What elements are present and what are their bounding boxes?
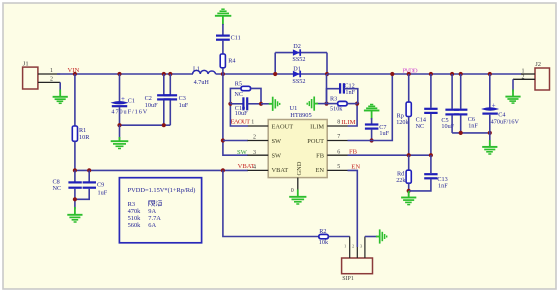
svg-text:4.7uH: 4.7uH [194, 79, 210, 86]
svg-text:GND: GND [296, 161, 303, 175]
wire FB to Rd [408, 155, 410, 170]
svg-text:6: 6 [337, 150, 340, 156]
wire bottom rail to ground [119, 125, 121, 139]
ground (SIP1, sideways right) [376, 229, 387, 243]
svg-text:D2: D2 [293, 43, 301, 50]
junction C4 bottom [488, 131, 492, 135]
U1 pin 4 VBAT [248, 165, 269, 171]
wire C5 bottom [451, 115, 453, 133]
wire Rp to FB row [408, 117, 410, 156]
svg-text:1: 1 [522, 69, 525, 75]
wire ground to C7 [371, 118, 373, 124]
svg-text:U1: U1 [290, 105, 298, 112]
wire POUT to PVDD rail [348, 74, 393, 141]
capacitor C5 [441, 110, 459, 131]
junction R3 left node [324, 102, 328, 106]
junction EAOUT node [228, 102, 232, 106]
wire EN to SIP1 pin2 [348, 170, 358, 247]
wire VIN rail [57, 73, 193, 75]
U1 pin 6 FB [327, 150, 347, 156]
junction C7/POUT [370, 138, 374, 142]
SIP1 pin 2 [352, 244, 357, 259]
ground (Rd/C13) [401, 191, 416, 205]
junction POUT at rail [390, 72, 394, 76]
svg-text:1nF: 1nF [468, 123, 478, 130]
svg-text:510k: 510k [330, 105, 343, 112]
capacitor C12 [340, 83, 355, 96]
wire R3 to right node [347, 103, 357, 105]
wire switch node through D1 to PVDD node [275, 73, 327, 75]
wire C13 top [430, 155, 432, 173]
wire R4 to switch node [222, 68, 224, 74]
resistor R3 [330, 96, 347, 113]
svg-text:2: 2 [253, 134, 256, 140]
svg-text:R3: R3 [128, 201, 135, 208]
svg-text:NC: NC [53, 185, 62, 192]
junction Rp at rail [407, 72, 411, 76]
wire ground to C11 [222, 24, 224, 35]
svg-text:4: 4 [253, 165, 256, 171]
wire ILIM to R3 network [348, 104, 358, 126]
svg-text:EAOUT: EAOUT [231, 119, 251, 126]
junction R1 tap [73, 72, 77, 76]
U1 pin 2 SW [248, 134, 269, 140]
svg-text:SW: SW [272, 153, 283, 160]
svg-text:SS52: SS52 [292, 56, 305, 63]
svg-text:7: 7 [337, 134, 340, 140]
svg-text:120k: 120k [396, 119, 409, 126]
svg-text:SW: SW [237, 149, 248, 156]
capacitor C4 (polarized) [482, 101, 519, 125]
svg-text:470uF/16V: 470uF/16V [491, 119, 520, 126]
ground (above C7, pointing up) [364, 105, 380, 120]
diode branch left vertical [274, 53, 276, 74]
svg-text:C11: C11 [231, 34, 241, 41]
svg-text:2: 2 [522, 75, 525, 81]
junction C2 tap [162, 72, 166, 76]
wire R3 left node to sideways ground [316, 103, 327, 105]
svg-text:8: 8 [337, 120, 340, 126]
junction C1 tap [117, 72, 121, 76]
SIP1 pin 1 [344, 237, 350, 259]
junction VBAT at C9 [87, 168, 91, 172]
U1 pin 3 SW [248, 150, 269, 156]
svg-text:1uF: 1uF [179, 102, 189, 109]
wire C3 to bottom rail [169, 100, 171, 125]
wire D2 branch [275, 52, 327, 54]
wire VIN to R1 [74, 74, 76, 126]
wire VBAT row [75, 169, 248, 171]
wire node to sideways ground [261, 103, 272, 105]
SIP1 pin 3 [360, 237, 365, 259]
junction C5 at rail [450, 72, 454, 76]
resistor R4 [220, 54, 235, 68]
svg-text:FB: FB [316, 153, 324, 160]
svg-text:2: 2 [50, 77, 53, 83]
junction C6 at rail [459, 72, 463, 76]
wire C10 left [230, 103, 243, 105]
svg-text:1: 1 [344, 244, 346, 249]
svg-text:J2: J2 [535, 61, 541, 68]
svg-text:10uF: 10uF [235, 110, 248, 117]
junction C8/C9 bottoms [73, 197, 77, 201]
wire C2 to bottom rail [163, 100, 165, 125]
wire C10 right [247, 103, 261, 105]
inductor L1 [193, 66, 216, 86]
svg-text:C4: C4 [498, 111, 505, 118]
U1 pin 8 ILIM [327, 120, 347, 126]
wire C8 top [74, 170, 76, 181]
diode branch right vertical [326, 53, 328, 74]
svg-text:D1: D1 [293, 65, 301, 72]
ground (EAOUT RC, sideways right) [269, 97, 280, 111]
wire C11 to R4 [222, 41, 224, 54]
svg-text:R5: R5 [235, 80, 242, 87]
junction Rd/C13 ground node [407, 189, 411, 193]
capacitor C3 [164, 95, 189, 109]
resistor Rd [396, 170, 411, 184]
wire R5 branch up-left [230, 88, 241, 103]
resistor R5 [234, 80, 250, 97]
svg-text:SIP1: SIP1 [342, 276, 354, 282]
capacitor C1 (polarized) [111, 95, 147, 116]
svg-text:1uF: 1uF [379, 130, 389, 137]
svg-text:PVDD=1.15V*(1+Rp/Rd): PVDD=1.15V*(1+Rp/Rd) [128, 187, 196, 194]
wire FB row [348, 154, 431, 156]
wire C14 to FB row [430, 114, 432, 155]
wire rail to C14 [430, 74, 432, 108]
svg-text:1nF: 1nF [345, 89, 355, 96]
wire R5 branch down-right [251, 88, 261, 103]
svg-text:L1: L1 [193, 66, 200, 73]
U1 pin 7 POUT [327, 134, 347, 140]
capacitor C6 [454, 110, 478, 130]
wire C12 branch [327, 89, 341, 104]
svg-text:NC: NC [416, 123, 425, 130]
wire C9 top [88, 170, 90, 181]
svg-text:1: 1 [251, 119, 254, 125]
wire diode node down to R3 left node [326, 74, 328, 104]
wire rail to C4 [489, 74, 491, 108]
capacitor C9 [83, 182, 108, 197]
capacitor C2 [145, 95, 171, 109]
wire VIN to C1 [119, 74, 121, 101]
wire VIN to C3 [169, 74, 171, 95]
svg-text:VBAT: VBAT [272, 167, 289, 174]
junction C14 at rail [429, 72, 433, 76]
svg-text:C1: C1 [128, 98, 135, 105]
capacitor C8 [53, 179, 82, 193]
connector SIP1 [342, 258, 373, 282]
junction C10/R5 right node [259, 102, 263, 106]
svg-text:22k: 22k [396, 177, 406, 184]
junction Rp/Rd at FB [407, 153, 411, 157]
svg-text:ILIM: ILIM [341, 119, 355, 126]
U1 pin 0 GND [291, 178, 298, 194]
wire J1 pin2 to ground [59, 82, 61, 91]
wire C13 bottom to Rd ground node [409, 179, 431, 191]
junction diode left [273, 72, 277, 76]
U1 pin 5 EN [327, 164, 347, 170]
wire L1 to switch node [216, 73, 276, 75]
connector J1 [23, 61, 38, 89]
note box PVDD formula [119, 178, 201, 243]
junction SW pin2 [221, 138, 225, 142]
svg-text:10uF: 10uF [145, 102, 158, 109]
wire C9 bottom jog [75, 189, 89, 200]
ground (output caps) [482, 140, 497, 154]
capacitor C14 [416, 109, 438, 130]
U1 pin 1 EAOUT [248, 119, 269, 126]
wire C1 to bottom rail [119, 107, 121, 125]
svg-text:510k: 510k [128, 215, 142, 222]
wire SIP1 pin3 to ground [365, 236, 377, 238]
svg-text:1nF: 1nF [438, 183, 448, 190]
resistor R1 [72, 126, 90, 141]
J1 pin 2 [38, 77, 60, 83]
svg-text:10k: 10k [319, 239, 329, 246]
junction R3 right node [355, 102, 359, 106]
wire C6 bottom [460, 115, 462, 133]
junction VBAT at R1 [73, 168, 77, 172]
wire PVDD rail [327, 73, 522, 75]
svg-text:1: 1 [50, 68, 53, 74]
svg-text:7.7A: 7.7A [148, 215, 161, 222]
svg-text:10R: 10R [79, 134, 90, 141]
svg-text:HT8905: HT8905 [290, 112, 311, 119]
svg-text:470k: 470k [128, 208, 142, 215]
resistor R2 [319, 228, 329, 246]
ground (input caps) [111, 137, 129, 149]
svg-text:R4: R4 [228, 58, 235, 65]
svg-text:SW: SW [272, 138, 283, 145]
wire R2 to SIP1 pin1 [328, 236, 349, 238]
wire rail to Rp [408, 74, 410, 102]
svg-text:ILIM: ILIM [310, 123, 324, 130]
junction bottom rail at C1 [117, 123, 121, 127]
wire C7 to POUT row [371, 130, 373, 141]
svg-text:560k: 560k [128, 222, 142, 229]
ground (C8/C9) [67, 207, 82, 222]
wire VIN to C2 [163, 74, 165, 95]
svg-text:3: 3 [253, 150, 256, 156]
ground (J2 pin 2) [505, 90, 520, 104]
wire C8 bottom to ground [74, 189, 76, 209]
connector J2 [535, 61, 550, 90]
svg-text:NC: NC [234, 91, 243, 98]
junction C3 tap [168, 72, 172, 76]
wire R3 left node to R3 [327, 103, 338, 105]
wire C4 to bottom rail and ground [489, 115, 491, 147]
svg-text:R3: R3 [330, 96, 337, 103]
svg-text:C9: C9 [97, 182, 104, 189]
capacitor C13 [424, 174, 448, 189]
J2 pin 1 [521, 69, 535, 75]
wire C12 to right node [344, 89, 358, 104]
svg-text:0: 0 [291, 188, 294, 194]
wire SW vertical (switch node to SW pins) [223, 74, 248, 155]
ground (top, above C11, pointing up) [215, 9, 231, 25]
capacitor C7 [365, 124, 390, 137]
resistor Rp [396, 102, 411, 126]
wire SW pin2 row [223, 140, 248, 142]
svg-text:1uF: 1uF [98, 189, 108, 196]
capacitor C10 [235, 97, 248, 117]
svg-text:SS52: SS52 [292, 78, 305, 85]
wire rail to C6 [460, 74, 462, 109]
wire Rd to ground node [408, 183, 410, 196]
wire VBAT branch down to R2 [223, 170, 319, 236]
svg-text:R2: R2 [319, 228, 326, 235]
junction diode right [325, 72, 329, 76]
J2 pin 2 [513, 75, 535, 81]
diode D1 SS52 [292, 65, 305, 85]
svg-text:EAOUT: EAOUT [272, 123, 294, 130]
svg-text:EN: EN [351, 163, 360, 170]
junction VBAT at R2 branch [221, 168, 225, 172]
svg-text:9A: 9A [148, 208, 156, 215]
wire EAOUT pin to RC network [230, 104, 248, 126]
wire rail to C5 [451, 74, 453, 109]
J1 pin 1 [38, 68, 60, 74]
ground (ILIM network, sideways left) [307, 97, 318, 111]
wire R1 to VBAT row [74, 141, 76, 170]
wire bottom rail C1-C2-C3 [120, 124, 171, 126]
svg-text:J1: J1 [23, 61, 29, 68]
op-amp U1 HT8905 body [268, 105, 327, 178]
junction bottom rail at C2 [162, 123, 166, 127]
svg-text:EN: EN [315, 167, 324, 174]
svg-text:FB: FB [349, 149, 358, 156]
wire J2 pin2 to ground [512, 79, 514, 91]
ground (U1 GND pin) [289, 190, 306, 205]
capacitor C11 [216, 34, 241, 41]
svg-text:5: 5 [337, 164, 340, 170]
ground (J1 pin 2) [53, 90, 68, 104]
junction C4 at rail [488, 72, 492, 76]
svg-text:POUT: POUT [307, 138, 324, 145]
junction C13 at FB row [429, 153, 433, 157]
junction C6 bottom [459, 131, 463, 135]
svg-text:470uF/16V: 470uF/16V [111, 109, 147, 116]
svg-text:2: 2 [352, 244, 354, 249]
junction switch node [221, 72, 225, 76]
svg-text:6A: 6A [148, 222, 156, 229]
wire output caps bottom rail [452, 132, 490, 134]
diode D2 SS52 [292, 43, 305, 63]
